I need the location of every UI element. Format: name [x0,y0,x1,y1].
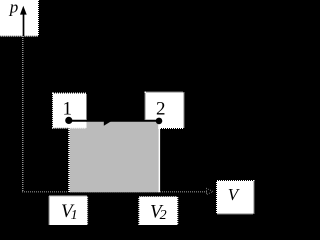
node 2 dot [156,118,163,125]
V1 label box [50,196,88,225]
label box 2 [146,93,184,129]
p label box [0,0,38,36]
label box 1 [53,94,86,128]
V-axis dotted line [22,191,208,193]
node 1 dot [65,117,72,124]
svg-text:2: 2 [156,99,166,120]
white dotted guide 1 -> V1 (left edge of shaded area) [68,121,70,192]
white guide 2 -> V2 (right edge of shaded area) [158,124,160,192]
svg-text:p: p [9,0,19,17]
V label box [217,181,254,214]
svg-text:1: 1 [62,98,72,119]
p-axis dotted line [22,36,24,192]
V-axis dotted arrowhead [207,188,214,194]
dashed black guide 1 -> V1 [67,121,69,192]
p-axis arrow [20,6,27,36]
shaded area (work) rectangle [68,121,158,192]
arrowhead on process line [104,116,112,125]
process line 1-2 (isobar) [68,120,160,122]
V2 label box [139,197,177,225]
